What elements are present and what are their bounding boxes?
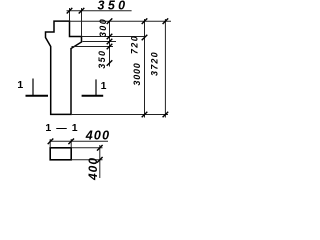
extension line: shaft top to dim line A [72,46,114,48]
dimension line A (300 / 350 chain, vertical) [109,21,111,66]
svg-text:3000: 3000 [132,62,142,85]
tick: C top [163,18,169,24]
tick: A top [107,18,113,24]
section 1-1 outline (column cross-section) [50,148,71,160]
tick: 400v top [97,145,103,151]
svg-text:1: 1 [101,80,107,92]
section cut mark left (bar) [26,95,49,97]
svg-text:1—1: 1—1 [45,122,82,134]
tick: C bottom [163,112,169,118]
tick: A at notch bottom [107,34,113,40]
extension line: section right edge up [70,139,72,148]
extension line: column top edge extended right [70,20,172,22]
dimension line C (3720 overall, vertical) [164,19,166,118]
column elevation outline (cap with corbel notch, haunches, shaft) [46,21,82,114]
tick: A at cap bottom [107,39,113,45]
extension line: notch bottom to dim line B [82,36,147,38]
tick: 350 dim right [79,8,85,14]
extension line: section top edge right [71,147,102,149]
tick: B bottom [142,112,148,118]
dimension line B (720 / 3000 chain, vertical) [144,19,146,118]
svg-text:400: 400 [85,128,110,142]
dimension line 350 (top, horizontal) [67,10,132,12]
tick: A at shaft top [107,44,113,50]
section cut mark right (stem) [95,79,97,95]
tick: 400h left [48,139,54,145]
extension line: notch left wall up [69,8,71,21]
section cut mark right (bar) [82,95,104,97]
dimension line 400 (section, vertical) [99,145,101,178]
tick: 400v bottom [97,157,103,163]
section cut mark left (stem) [32,79,34,96]
extension line: section left edge up [49,139,51,148]
svg-text:350: 350 [97,50,107,69]
svg-text:720: 720 [130,35,140,54]
svg-text:350: 350 [97,0,128,13]
tick: 400h right [68,139,74,145]
svg-text:3720: 3720 [150,51,160,76]
tick: B top [142,18,148,24]
tick: A bottom [107,60,113,66]
extension line: cap bottom corner to dim line A [83,41,117,43]
svg-text:300: 300 [98,18,108,37]
extension line: column base extended right [71,114,168,116]
tick: 350 dim left [67,8,73,14]
dimension line 400 (section, horizontal) [49,140,108,142]
svg-text:1: 1 [17,79,23,91]
tick: B middle [142,35,148,41]
extension line: notch right wall up [81,8,83,37]
svg-text:400: 400 [86,157,100,181]
extension line: section bottom edge right [71,159,102,161]
